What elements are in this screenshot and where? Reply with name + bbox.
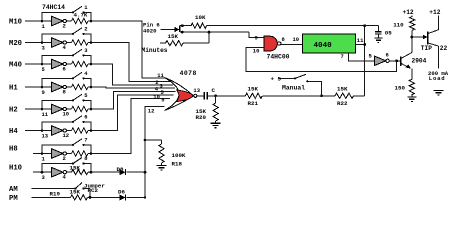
svg-text:H1: H1 [9, 85, 18, 93]
svg-text:D8: D8 [117, 166, 124, 173]
svg-text:2: 2 [84, 25, 87, 32]
svg-text:10: 10 [253, 47, 260, 54]
svg-text:1: 1 [42, 155, 46, 162]
svg-text:R18: R18 [172, 160, 183, 167]
svg-text:74HC14: 74HC14 [42, 4, 65, 11]
svg-text:2: 2 [63, 155, 66, 162]
svg-text:11: 11 [157, 72, 164, 79]
svg-text:110: 110 [393, 22, 404, 29]
svg-text:+12: +12 [429, 9, 440, 16]
svg-text:4.7K: 4.7K [74, 12, 88, 19]
svg-text:C: C [212, 87, 216, 94]
svg-text:22: 22 [440, 45, 448, 52]
svg-text:12: 12 [148, 108, 155, 115]
svg-text:4: 4 [84, 70, 88, 77]
svg-text:R22: R22 [337, 100, 348, 107]
svg-text:3: 3 [84, 47, 88, 54]
svg-text:4040: 4040 [314, 42, 333, 50]
svg-text:+ 5: + 5 [271, 75, 282, 82]
svg-text:11: 11 [357, 37, 364, 44]
svg-text:PM: PM [9, 195, 18, 203]
svg-text:8: 8 [84, 155, 88, 162]
svg-text:H10: H10 [9, 164, 22, 172]
svg-text:7: 7 [84, 136, 87, 143]
svg-text:15K: 15K [337, 86, 348, 93]
svg-text:M10: M10 [9, 19, 22, 27]
svg-text:M40: M40 [9, 62, 22, 70]
svg-text:15K: 15K [70, 189, 81, 196]
svg-text:+12: +12 [403, 9, 414, 16]
svg-text:5: 5 [42, 66, 46, 73]
svg-text:10: 10 [153, 94, 160, 101]
svg-text:6: 6 [63, 65, 66, 72]
svg-text:RC2: RC2 [88, 187, 99, 194]
svg-text:Manual: Manual [282, 84, 305, 91]
svg-text:H2: H2 [9, 107, 18, 115]
svg-text:3: 3 [42, 44, 46, 51]
svg-text:5: 5 [84, 92, 88, 99]
svg-text:4: 4 [63, 174, 67, 181]
svg-text:10: 10 [63, 110, 70, 117]
svg-text:9: 9 [161, 97, 164, 104]
svg-text:R20: R20 [196, 114, 207, 121]
svg-text:10K: 10K [195, 14, 206, 21]
svg-text:5: 5 [369, 53, 373, 60]
svg-text:Minutes: Minutes [142, 47, 168, 54]
svg-text:9: 9 [42, 89, 45, 96]
svg-text:TIP: TIP [421, 45, 432, 52]
svg-text:R21: R21 [248, 100, 259, 107]
svg-text:13: 13 [193, 87, 200, 94]
svg-text:13: 13 [42, 132, 49, 139]
svg-text:6: 6 [84, 113, 87, 120]
svg-text:74HC00: 74HC00 [267, 54, 290, 61]
svg-text:H4: H4 [9, 128, 18, 136]
svg-text:6: 6 [386, 52, 389, 59]
svg-text:H8: H8 [9, 146, 18, 154]
svg-text:1: 1 [42, 23, 46, 30]
svg-text:1: 1 [84, 4, 88, 11]
svg-text:150: 150 [395, 84, 406, 91]
svg-text:2904: 2904 [412, 58, 427, 65]
svg-text:15K: 15K [248, 86, 259, 93]
svg-text:4078: 4078 [180, 70, 197, 77]
svg-text:Load: Load [429, 75, 446, 82]
svg-text:7: 7 [341, 53, 344, 60]
svg-text:3: 3 [42, 174, 46, 181]
svg-text:9: 9 [255, 35, 258, 42]
svg-text:2: 2 [63, 22, 66, 29]
svg-text:D6: D6 [118, 188, 125, 195]
svg-text:4: 4 [63, 44, 67, 51]
svg-text:AM: AM [9, 186, 18, 194]
svg-text:11: 11 [42, 111, 49, 118]
svg-text:R19: R19 [50, 190, 61, 197]
svg-text:15K: 15K [168, 33, 179, 40]
svg-text:M20: M20 [9, 40, 22, 48]
svg-text:4020: 4020 [143, 28, 157, 35]
svg-text:8: 8 [282, 36, 286, 43]
svg-text:05: 05 [385, 30, 392, 37]
svg-text:10: 10 [293, 36, 300, 43]
svg-text:12: 12 [63, 132, 70, 139]
svg-text:100K: 100K [172, 152, 186, 159]
svg-text:15K: 15K [70, 165, 81, 172]
svg-text:8: 8 [63, 88, 67, 95]
